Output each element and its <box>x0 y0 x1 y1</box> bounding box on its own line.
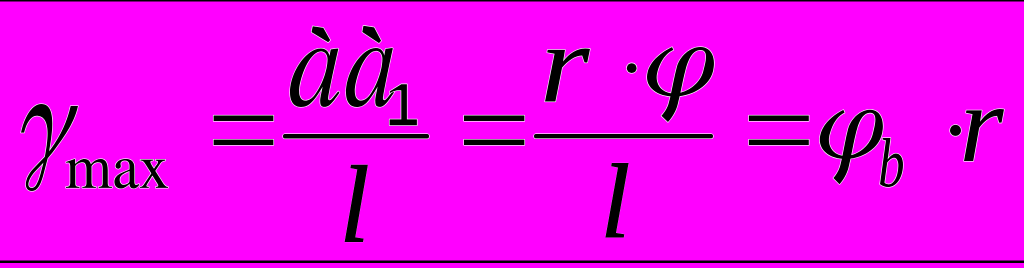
equals sign #1 <box>214 116 274 146</box>
top black border bar <box>0 0 1024 2</box>
equals sign #3 <box>749 116 809 146</box>
final r (italic) <box>964 109 1004 161</box>
fraction bar #1 <box>283 134 429 139</box>
first grave accent <box>312 26 331 42</box>
denominator l #2 (italic) <box>606 164 628 237</box>
first à body (italic a) <box>290 49 339 107</box>
denominator l #1 (italic) <box>345 165 367 241</box>
subscript b (italic) <box>880 138 903 187</box>
φ main (italic phi) <box>820 110 883 184</box>
second grave accent <box>362 26 381 43</box>
gamma (γ) main variable <box>21 104 78 191</box>
equals sign #2 <box>464 116 524 146</box>
fraction bar #2 <box>534 134 713 138</box>
bottom black border bar <box>0 261 1024 264</box>
second à body (italic a) <box>346 48 394 107</box>
subscript 1 (hand-drawn serif one) <box>390 84 417 125</box>
multiplication dot #2 <box>950 125 961 136</box>
numerator r (italic) <box>545 49 590 102</box>
numerator φ (italic phi) <box>647 47 714 122</box>
multiplication dot #1 <box>627 63 637 73</box>
subscript "max" <box>66 159 168 189</box>
